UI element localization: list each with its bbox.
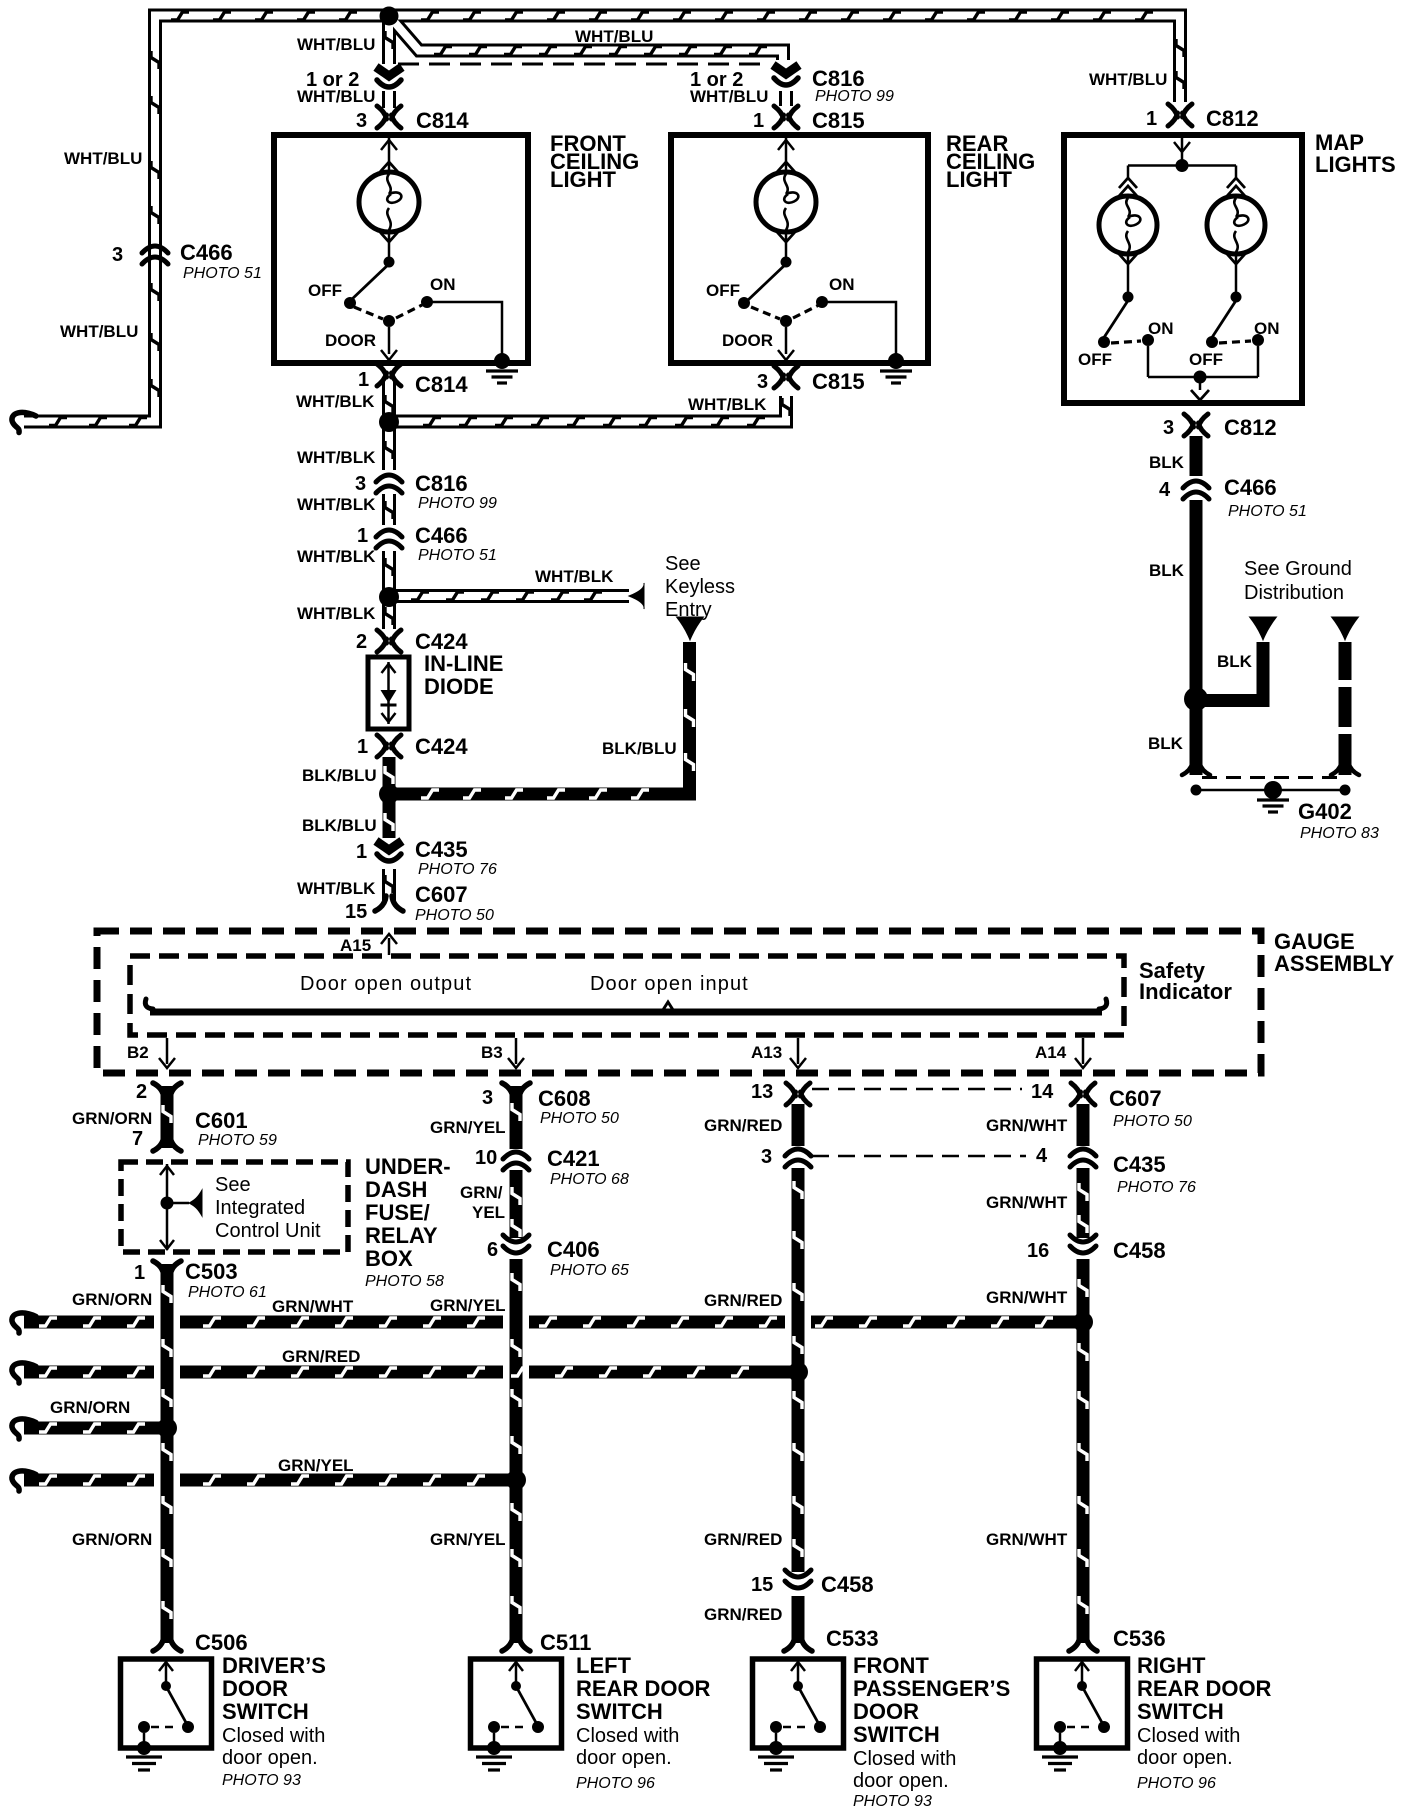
svg-text:ON: ON [1254,319,1280,338]
svg-text:PHOTO 59: PHOTO 59 [198,1132,277,1149]
svg-text:C815: C815 [812,108,865,133]
svg-text:YEL: YEL [472,1203,505,1222]
svg-text:Distribution: Distribution [1244,582,1344,604]
svg-text:GRN/ORN: GRN/ORN [50,1398,130,1417]
svg-text:Integrated: Integrated [215,1197,305,1219]
svg-text:7: 7 [132,1128,143,1150]
svg-text:GRN/RED: GRN/RED [704,1291,782,1310]
svg-text:C458: C458 [1113,1238,1166,1263]
svg-text:C458: C458 [821,1572,874,1597]
svg-text:ASSEMBLY: ASSEMBLY [1274,951,1395,976]
svg-text:PHOTO 76: PHOTO 76 [418,861,497,878]
svg-text:Door open input: Door open input [590,973,749,995]
svg-text:C814: C814 [415,372,468,397]
svg-text:BLK/BLU: BLK/BLU [302,766,377,785]
svg-text:DOOR: DOOR [722,331,773,350]
svg-text:A14: A14 [1035,1043,1067,1062]
svg-text:C435: C435 [415,837,468,862]
svg-text:GRN/WHT: GRN/WHT [986,1288,1068,1307]
svg-text:C466: C466 [180,240,233,265]
svg-text:Closed with: Closed with [576,1725,679,1747]
svg-text:PHOTO 50: PHOTO 50 [1113,1113,1192,1130]
svg-text:PHOTO 51: PHOTO 51 [183,265,262,282]
svg-text:PHOTO 50: PHOTO 50 [415,907,494,924]
svg-text:BLK: BLK [1149,561,1185,580]
svg-text:door open.: door open. [1137,1747,1233,1769]
svg-text:DOOR: DOOR [222,1676,288,1701]
svg-text:C406: C406 [547,1237,600,1262]
svg-text:3: 3 [112,244,123,266]
svg-text:LEFT: LEFT [576,1653,632,1678]
svg-text:LIGHTS: LIGHTS [1315,152,1396,177]
svg-text:C506: C506 [195,1630,248,1655]
svg-text:10: 10 [475,1147,497,1169]
svg-text:GRN/RED: GRN/RED [704,1605,782,1624]
svg-text:PHOTO 51: PHOTO 51 [418,547,497,564]
svg-text:C466: C466 [415,523,468,548]
svg-text:15: 15 [751,1574,773,1596]
svg-text:3: 3 [757,371,768,393]
svg-text:PHOTO 68: PHOTO 68 [550,1171,629,1188]
svg-text:GRN/YEL: GRN/YEL [430,1118,506,1137]
svg-text:PHOTO 51: PHOTO 51 [1228,503,1307,520]
svg-text:WHT/BLK: WHT/BLK [297,448,376,467]
svg-text:C503: C503 [185,1259,238,1284]
svg-text:WHT/BLK: WHT/BLK [535,567,614,586]
svg-text:SWITCH: SWITCH [853,1722,940,1747]
svg-text:1: 1 [1146,108,1157,130]
svg-text:1: 1 [357,736,368,758]
svg-text:WHT/BLU: WHT/BLU [297,35,375,54]
svg-text:GRN/RED: GRN/RED [704,1116,782,1135]
svg-text:door open.: door open. [222,1747,318,1769]
svg-text:LIGHT: LIGHT [550,167,617,192]
svg-text:GRN/WHT: GRN/WHT [272,1297,354,1316]
svg-text:C608: C608 [538,1086,591,1111]
svg-text:LIGHT: LIGHT [946,167,1013,192]
svg-text:UNDER-: UNDER- [365,1154,451,1179]
svg-text:WHT/BLU: WHT/BLU [1089,70,1167,89]
svg-text:B3: B3 [481,1043,503,1062]
svg-text:15: 15 [345,901,367,923]
svg-text:4: 4 [1036,1145,1048,1167]
svg-text:WHT/BLU: WHT/BLU [690,87,768,106]
svg-text:3: 3 [1163,417,1174,439]
svg-text:14: 14 [1031,1081,1054,1103]
svg-text:PHOTO 93: PHOTO 93 [853,1793,932,1808]
svg-text:A13: A13 [751,1043,782,1062]
svg-text:BOX: BOX [365,1246,413,1271]
svg-text:WHT/BLK: WHT/BLK [296,392,375,411]
svg-text:WHT/BLK: WHT/BLK [297,495,376,514]
svg-text:13: 13 [751,1081,773,1103]
svg-text:GRN/WHT: GRN/WHT [986,1193,1068,1212]
svg-text:SWITCH: SWITCH [576,1699,663,1724]
svg-text:ON: ON [430,275,456,294]
svg-text:GRN/WHT: GRN/WHT [986,1116,1068,1135]
svg-text:PHOTO 76: PHOTO 76 [1117,1179,1196,1196]
svg-text:WHT/BLU: WHT/BLU [297,87,375,106]
svg-text:C812: C812 [1206,106,1259,131]
svg-text:1: 1 [356,841,367,863]
svg-text:WHT/BLK: WHT/BLK [297,879,376,898]
svg-text:OFF: OFF [706,281,740,300]
svg-text:C812: C812 [1224,415,1277,440]
svg-text:GRN/ORN: GRN/ORN [72,1530,152,1549]
svg-text:C815: C815 [812,369,865,394]
svg-text:BLK: BLK [1217,652,1253,671]
svg-text:C424: C424 [415,734,468,759]
svg-text:C814: C814 [416,108,469,133]
svg-text:C536: C536 [1113,1626,1166,1651]
svg-text:BLK: BLK [1148,734,1184,753]
svg-text:OFF: OFF [1078,350,1112,369]
svg-text:A15: A15 [340,936,371,955]
svg-text:C601: C601 [195,1108,248,1133]
svg-text:PHOTO 50: PHOTO 50 [540,1110,619,1127]
svg-text:DOOR: DOOR [853,1699,919,1724]
svg-text:Closed with: Closed with [222,1725,325,1747]
svg-text:C607: C607 [415,882,468,907]
svg-text:PHOTO 96: PHOTO 96 [576,1775,655,1792]
svg-text:3: 3 [356,110,367,132]
svg-text:PHOTO 93: PHOTO 93 [222,1772,301,1789]
svg-text:PHOTO 65: PHOTO 65 [550,1262,629,1279]
svg-text:See: See [665,553,701,575]
svg-text:3: 3 [355,473,366,495]
svg-text:PHOTO 96: PHOTO 96 [1137,1775,1216,1792]
svg-text:RELAY: RELAY [365,1223,438,1248]
svg-text:PHOTO 99: PHOTO 99 [815,88,894,105]
svg-text:BLK/BLU: BLK/BLU [302,816,377,835]
svg-text:GRN/ORN: GRN/ORN [72,1109,152,1128]
svg-text:Control Unit: Control Unit [215,1220,321,1242]
svg-text:See Ground: See Ground [1244,558,1352,580]
svg-text:C466: C466 [1224,475,1277,500]
svg-text:RIGHT: RIGHT [1137,1653,1206,1678]
svg-text:C533: C533 [826,1626,879,1651]
svg-text:1: 1 [357,525,368,547]
svg-text:FRONT: FRONT [853,1653,929,1678]
svg-text:GRN/WHT: GRN/WHT [986,1530,1068,1549]
svg-text:C421: C421 [547,1146,600,1171]
svg-text:2: 2 [356,631,367,653]
svg-text:BLK/BLU: BLK/BLU [602,739,677,758]
svg-text:GRN/RED: GRN/RED [704,1530,782,1549]
svg-text:Keyless: Keyless [665,576,735,598]
svg-text:ON: ON [1148,319,1174,338]
svg-text:WHT/BLK: WHT/BLK [688,395,767,414]
svg-text:SWITCH: SWITCH [222,1699,309,1724]
svg-text:REAR DOOR: REAR DOOR [576,1676,711,1701]
svg-text:DRIVER’S: DRIVER’S [222,1653,326,1678]
svg-text:See: See [215,1174,251,1196]
svg-text:1: 1 [753,110,764,132]
svg-text:3: 3 [761,1146,772,1168]
svg-text:OFF: OFF [1189,350,1223,369]
svg-text:FUSE/: FUSE/ [365,1200,430,1225]
svg-text:REAR DOOR: REAR DOOR [1137,1676,1272,1701]
svg-text:3: 3 [482,1087,493,1109]
svg-text:GRN/YEL: GRN/YEL [430,1296,506,1315]
svg-text:door open.: door open. [853,1770,949,1792]
svg-text:1: 1 [358,369,369,391]
svg-text:B2: B2 [127,1043,149,1062]
svg-text:Indicator: Indicator [1139,979,1232,1004]
svg-text:Closed with: Closed with [1137,1725,1240,1747]
svg-text:16: 16 [1027,1240,1049,1262]
svg-text:1: 1 [134,1262,145,1284]
svg-text:6: 6 [487,1239,498,1261]
svg-text:PHOTO 58: PHOTO 58 [365,1273,444,1290]
svg-text:WHT/BLU: WHT/BLU [60,322,138,341]
svg-text:WHT/BLK: WHT/BLK [297,547,376,566]
svg-text:PHOTO 83: PHOTO 83 [1300,825,1379,842]
svg-text:IN-LINE: IN-LINE [424,651,503,676]
svg-text:C511: C511 [540,1630,591,1655]
svg-text:DASH: DASH [365,1177,427,1202]
svg-text:SWITCH: SWITCH [1137,1699,1224,1724]
svg-text:C435: C435 [1113,1152,1166,1177]
svg-text:BLK: BLK [1149,453,1185,472]
svg-text:GRN/ORN: GRN/ORN [72,1290,152,1309]
svg-text:4: 4 [1159,479,1171,501]
svg-text:DIODE: DIODE [424,674,494,699]
svg-text:WHT/BLK: WHT/BLK [297,604,376,623]
svg-text:2: 2 [136,1081,147,1103]
svg-text:ON: ON [829,275,855,294]
svg-text:DOOR: DOOR [325,331,376,350]
svg-text:GRN/RED: GRN/RED [282,1347,360,1366]
svg-text:PHOTO 99: PHOTO 99 [418,495,497,512]
svg-text:C607: C607 [1109,1086,1162,1111]
svg-text:GRN/YEL: GRN/YEL [278,1456,354,1475]
svg-text:WHT/BLU: WHT/BLU [575,27,653,46]
svg-text:PASSENGER’S: PASSENGER’S [853,1676,1010,1701]
svg-text:GRN/YEL: GRN/YEL [430,1530,506,1549]
svg-text:WHT/BLU: WHT/BLU [64,149,142,168]
svg-text:PHOTO 61: PHOTO 61 [188,1284,267,1301]
svg-text:door open.: door open. [576,1747,672,1769]
svg-text:Closed with: Closed with [853,1748,956,1770]
svg-text:Door open output: Door open output [300,973,472,995]
svg-text:C816: C816 [415,471,468,496]
svg-text:GRN/: GRN/ [460,1183,503,1202]
svg-text:G402: G402 [1298,799,1352,824]
svg-text:OFF: OFF [308,281,342,300]
